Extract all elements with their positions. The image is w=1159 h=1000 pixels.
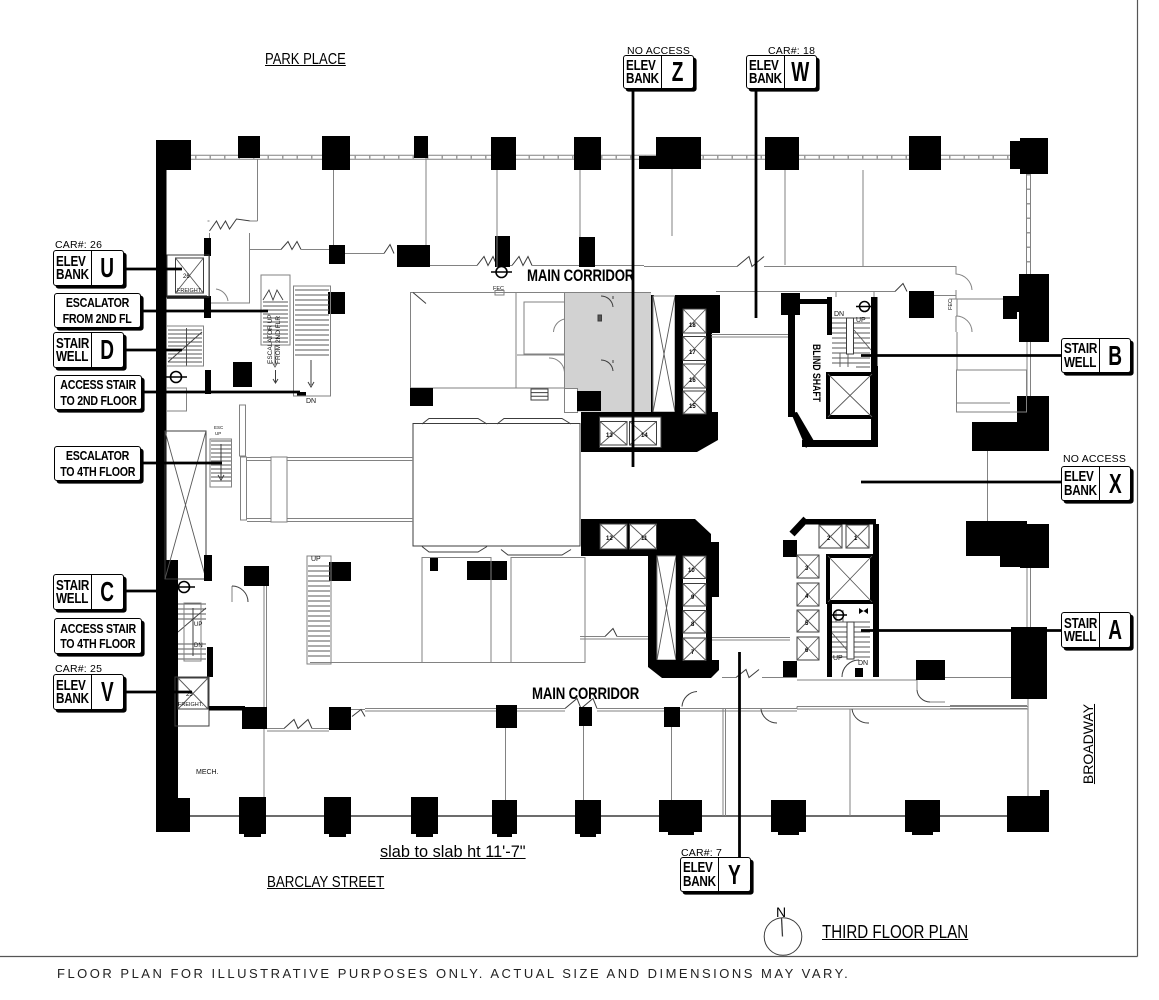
sheet frame bbox=[1137, 0, 1139, 957]
svg-text:ESC: ESC bbox=[214, 425, 224, 430]
svg-text:DN: DN bbox=[306, 398, 316, 405]
small feet under columns bbox=[244, 832, 933, 837]
door arcs in grey room bbox=[598, 296, 613, 371]
svg-text:UP: UP bbox=[856, 317, 866, 324]
svg-text:14: 14 bbox=[641, 433, 648, 439]
small escalator treads to 4th bbox=[211, 441, 231, 481]
svg-text:N: N bbox=[776, 904, 786, 920]
corridor door posts bbox=[329, 245, 345, 264]
escalator up from 2nd enclosure bbox=[261, 275, 290, 345]
svg-text:UP: UP bbox=[215, 431, 221, 436]
svg-text:15: 15 bbox=[689, 404, 696, 410]
cut symbol upper corridor bbox=[491, 267, 512, 278]
svg-text:MECH.: MECH. bbox=[196, 769, 219, 776]
escalator shaft big X bbox=[165, 431, 206, 579]
elevator shaft box bbox=[828, 556, 872, 602]
black blocks mid-left bbox=[233, 362, 252, 387]
left exterior thick wall bbox=[156, 140, 167, 570]
svg-text:UP: UP bbox=[311, 556, 321, 563]
label boxes bbox=[55, 239, 102, 251]
stair A bbox=[827, 604, 832, 677]
svg-text:26: 26 bbox=[183, 274, 190, 280]
corridor top wall right half y=266 bbox=[644, 257, 1003, 300]
cells 18..15 bbox=[600, 309, 706, 445]
svg-text:13: 13 bbox=[606, 433, 613, 439]
cut symbol bbox=[166, 372, 187, 383]
thin partition rects bbox=[240, 405, 246, 456]
thin lines from posts to bottom columns bbox=[497, 236, 988, 816]
elevator lobby rectangle bbox=[413, 424, 580, 547]
svg-text:DN: DN bbox=[834, 311, 844, 318]
access stair leader tick bbox=[297, 392, 306, 396]
svg-text:UP: UP bbox=[194, 622, 202, 628]
bottom exterior wall line bbox=[175, 815, 1028, 817]
svg-text:16: 16 bbox=[689, 378, 696, 384]
MECH room bbox=[263, 584, 265, 797]
footer bbox=[57, 966, 850, 981]
stair B bbox=[827, 297, 832, 335]
svg-text:12: 12 bbox=[606, 536, 613, 542]
north arrow bbox=[764, 918, 802, 956]
room block left of grey area bbox=[411, 293, 565, 389]
svg-text:UP: UP bbox=[833, 655, 843, 662]
svg-text:18: 18 bbox=[689, 323, 696, 329]
svg-text:FREIGHT.: FREIGHT. bbox=[177, 288, 203, 294]
rooms below left open area bbox=[232, 558, 585, 663]
long stair up (bottom, access to 4th) bbox=[307, 556, 331, 664]
svg-text:FROM 2ND FLR: FROM 2ND FLR bbox=[275, 316, 282, 364]
table symbol bbox=[531, 389, 548, 400]
svg-text:DN: DN bbox=[194, 643, 203, 649]
long stair down (access stair) bbox=[294, 286, 331, 396]
svg-text:BLIND SHAFT: BLIND SHAFT bbox=[810, 344, 822, 402]
corridor bottom wall right half y=292 bbox=[716, 284, 972, 333]
black blocks mid/bottom-left bbox=[430, 558, 438, 571]
upper wall of bottom corridor right part bbox=[722, 677, 736, 679]
svg-text:FREIGHT.: FREIGHT. bbox=[178, 702, 204, 708]
stair D bbox=[168, 328, 202, 366]
svg-text:17: 17 bbox=[689, 350, 696, 356]
blind shaft elevator box bbox=[828, 374, 872, 417]
bottom corridor door posts bbox=[242, 707, 267, 729]
top row columns bbox=[157, 140, 191, 170]
svg-text:11: 11 bbox=[641, 536, 648, 542]
top-left room with door bbox=[208, 219, 258, 303]
svg-text:FEC: FEC bbox=[948, 299, 954, 310]
vestibule walls between cores (upper) bbox=[711, 335, 790, 338]
svg-text:DN: DN bbox=[858, 660, 868, 667]
grey shaded room bbox=[565, 293, 651, 412]
right rooms outlines bbox=[949, 299, 1027, 709]
freight 25 bbox=[175, 677, 209, 726]
window break trapezoids bbox=[422, 419, 571, 556]
svg-text:ESCALATOR UP: ESCALATOR UP bbox=[267, 314, 274, 364]
right exterior wall segments bbox=[1027, 174, 1031, 797]
double walls to escalator area bbox=[247, 457, 413, 522]
top exterior wall (double line with mullion ticks) bbox=[166, 155, 1031, 159]
svg-text:10: 10 bbox=[688, 568, 695, 574]
street names bbox=[265, 51, 346, 69]
upper corridor top wall: left part y=249 bbox=[249, 242, 651, 293]
